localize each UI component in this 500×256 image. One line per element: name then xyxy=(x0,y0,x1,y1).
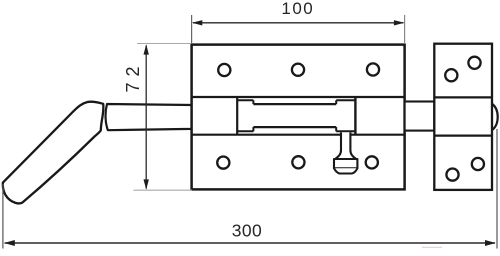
plate hole bottom-right xyxy=(366,156,378,168)
left strap opening top line xyxy=(237,99,253,101)
keeper plate outline xyxy=(434,44,492,190)
extension line above plate right (for 100 dim) xyxy=(404,15,406,44)
bridge band top line xyxy=(192,96,405,98)
arrow right of 100 dim xyxy=(394,20,404,25)
svg-text:300: 300 xyxy=(232,221,262,241)
left strap opening bottom line xyxy=(237,130,253,132)
knob cap bottom bevel xyxy=(334,168,357,173)
right strap step verticals xyxy=(335,100,337,104)
keeper cut line upper xyxy=(434,96,492,98)
extension line bottom (for 72 dim) xyxy=(134,189,193,191)
extension line bottom-left (for 300 dim) xyxy=(2,184,4,249)
knob stem and flare xyxy=(335,132,356,159)
bolt handle (bent rod, left) xyxy=(3,102,104,204)
extension line left of plate top (for 72 dim) xyxy=(137,43,191,45)
plate hole top-right xyxy=(367,63,379,75)
rod segment between plate and keeper xyxy=(405,102,435,131)
keeper cut line lower xyxy=(434,135,492,137)
dimension line 300 (bottom) xyxy=(5,242,496,244)
plate hole bottom-middle xyxy=(292,156,304,168)
right strap opening bottom line xyxy=(336,130,355,132)
bolt rod left segment (with break curve at left end) xyxy=(106,104,192,130)
arrow top of 72 dim xyxy=(144,44,149,54)
right strap vertical xyxy=(354,97,356,135)
rod inside bridge top line xyxy=(253,103,336,105)
keeper hole upper-right xyxy=(468,57,480,69)
plate hole top-left xyxy=(218,64,230,76)
dimension line 72 (left, vertical) xyxy=(145,46,147,189)
extension line bottom-right (for 300 dim) xyxy=(496,129,498,249)
left strap vertical xyxy=(236,97,238,135)
extension line above plate left (for 100 dim) xyxy=(191,15,193,44)
main plate xyxy=(192,45,405,190)
pink scan artifact xyxy=(422,246,442,248)
keeper hole lower-left xyxy=(446,169,458,181)
arrow bottom of 72 dim xyxy=(144,179,149,189)
svg-text:72: 72 xyxy=(123,60,143,92)
arrow left of 300 dim xyxy=(4,240,15,246)
plate hole top-middle xyxy=(292,64,304,76)
left strap step verticals xyxy=(252,100,254,104)
keeper hole lower-right xyxy=(472,158,484,170)
rod inside bridge bottom line xyxy=(253,126,336,128)
arrow right of 300 dim xyxy=(485,240,496,246)
arrow left of 100 dim xyxy=(192,20,202,25)
bridge band bottom line (interrupted at knob stem) xyxy=(192,134,341,136)
right strap opening top line xyxy=(336,99,355,101)
svg-text:100: 100 xyxy=(281,0,314,18)
dimension line 100 (top) xyxy=(193,22,404,24)
plate hole bottom-left xyxy=(217,157,229,169)
rod tip arc right of keeper xyxy=(492,104,498,130)
keeper hole upper-left xyxy=(445,69,457,81)
knob cap body xyxy=(334,159,357,168)
